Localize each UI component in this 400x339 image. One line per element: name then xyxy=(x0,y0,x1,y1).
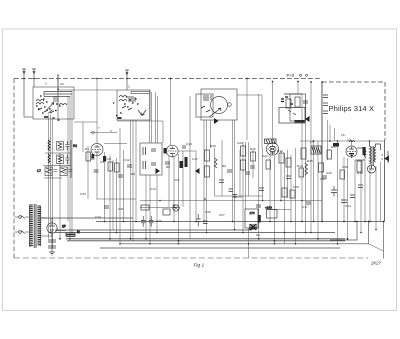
svg-text:+190: +190 xyxy=(265,206,272,210)
box C276 xyxy=(245,209,258,228)
wire x196 drop xyxy=(195,151,197,222)
wire V3 drop i2 xyxy=(274,156,276,244)
resistor R12 dark xyxy=(185,157,188,167)
wire speaker drop xyxy=(380,162,382,222)
wire osc can riser d1 xyxy=(149,90,151,143)
electrolytic wedge W3 xyxy=(214,118,219,124)
V2 electrodes xyxy=(170,147,175,154)
chassis dashed boundary top xyxy=(14,78,321,80)
coil L4 marks in T2 xyxy=(119,96,127,102)
wire x222 drop xyxy=(221,140,223,196)
wire V2 grid riser xyxy=(170,79,172,146)
primary left rail xyxy=(28,205,30,247)
bus wire y243.8 ground bus xyxy=(120,243,369,245)
V3 interior hatch xyxy=(269,147,276,153)
svg-text:R1: R1 xyxy=(85,147,89,151)
capacitor C50 below rectifier xyxy=(48,240,56,242)
antenna terminal 2 xyxy=(32,69,36,87)
resistor R38 dark xyxy=(363,147,366,155)
wire mixer can drop g2 xyxy=(206,120,208,233)
output stage group xyxy=(333,141,389,174)
svg-text:C32: C32 xyxy=(320,177,326,181)
resistor R26 box xyxy=(251,152,256,161)
speaker cone xyxy=(384,156,389,162)
wire y209 segment right xyxy=(266,209,291,211)
wire x311 drop xyxy=(310,82,312,233)
V1 electrodes xyxy=(95,145,100,152)
resistor R17 zigzag xyxy=(215,158,218,168)
wire x258 full drop xyxy=(258,94,260,239)
svg-text:R14: R14 xyxy=(297,164,303,168)
svg-text:R10: R10 xyxy=(210,144,216,148)
V4 electrodes xyxy=(349,147,354,154)
electrolytic wedge W4 xyxy=(305,116,310,122)
wire V4 cathode drop j1 xyxy=(343,157,345,222)
wire gang drop a1 xyxy=(48,115,50,239)
wire x183 drop xyxy=(182,151,184,207)
tone switch cluster dark xyxy=(249,224,257,230)
svg-text:C36: C36 xyxy=(342,165,348,169)
resistor R21 zigzag xyxy=(364,150,366,158)
extra small parts right section xyxy=(91,148,365,198)
wire IF line riser xyxy=(246,79,248,141)
junction dots bus 243 xyxy=(179,243,296,245)
svg-text:C31: C31 xyxy=(118,207,124,211)
wire heater bus start xyxy=(57,228,66,231)
wire V1 cathode drop xyxy=(96,156,98,200)
svg-text:2F: 2F xyxy=(62,225,66,229)
wire x190 drop xyxy=(189,96,191,239)
wire x88 drop xyxy=(87,146,89,199)
wire y144 top rail left part xyxy=(237,95,262,148)
capacitor C45 xyxy=(350,195,355,198)
tube V1 RF amp xyxy=(91,144,103,156)
wire antenna lead-in xyxy=(57,75,59,87)
wire x287 drop xyxy=(287,150,289,198)
coil L2 marks in T1 xyxy=(54,96,58,102)
svg-text:C40: C40 xyxy=(326,171,332,175)
svg-text:C12: C12 xyxy=(124,158,130,162)
svg-text:Fig 1: Fig 1 xyxy=(194,263,205,269)
AVC filter group xyxy=(37,140,77,178)
mains terminal P2 xyxy=(15,231,29,234)
V3 electrodes xyxy=(270,145,275,152)
wire feedback corner vertical x368.5 xyxy=(368,222,370,244)
capacitor C44 xyxy=(341,200,347,203)
coil scatter marks T2 xyxy=(113,97,139,116)
output transformer T6 secondary xyxy=(374,147,376,162)
svg-text:C26: C26 xyxy=(205,210,211,214)
wire mixer can drop g3 xyxy=(210,120,212,148)
capacitor C40 xyxy=(322,176,327,178)
svg-text:R8: R8 xyxy=(166,165,170,169)
tube V5 rectifier xyxy=(47,223,57,233)
wire avc row1 xyxy=(45,140,71,178)
capacitor C43 xyxy=(331,186,337,197)
fuse fill xyxy=(67,234,75,236)
resistor R30 box xyxy=(290,190,295,198)
electrolytic wedge W1 xyxy=(156,168,161,174)
svg-text:C17: C17 xyxy=(192,157,198,161)
wire drop x60 xyxy=(59,153,61,239)
wire x245 drop xyxy=(245,142,247,209)
tiny scattered labels xyxy=(45,82,363,238)
resistor R8 box xyxy=(103,156,106,162)
bus wire y230 xyxy=(55,229,252,231)
chassis dashed boundary left xyxy=(13,79,15,259)
coil L1 marks in T1 xyxy=(36,100,44,105)
capacitor C46 xyxy=(358,185,363,188)
resistor R31 box xyxy=(301,148,306,159)
wire output tx drop k2 xyxy=(375,166,377,230)
svg-text:C8: C8 xyxy=(107,157,111,161)
resistor R15 box xyxy=(205,150,210,161)
resistor R9 box xyxy=(108,162,113,171)
wire osc can drop c1 xyxy=(130,120,132,239)
wire IF1 drop e1 xyxy=(145,175,147,239)
capacitor C9 xyxy=(118,175,123,177)
magic eye circle xyxy=(368,165,376,173)
tube V3 IF amp xyxy=(266,143,278,156)
wire V4 grid riser xyxy=(351,141,353,146)
resistor R37 box xyxy=(266,160,271,169)
wire rect cathode down xyxy=(51,233,53,252)
wire secondary tap lower xyxy=(41,233,52,236)
bottom centre group xyxy=(245,204,277,231)
svg-text:R19: R19 xyxy=(357,171,363,175)
resistor R4 zigzag vertical xyxy=(48,154,50,163)
svg-text:C17: C17 xyxy=(302,205,308,209)
trimmer arrow in T3 xyxy=(209,108,221,117)
capacitor C5 xyxy=(65,155,70,165)
secondary winding xyxy=(37,206,40,245)
wire x302 drop xyxy=(301,94,303,222)
svg-text:R12: R12 xyxy=(250,147,256,151)
speaker frame xyxy=(382,151,389,163)
svg-text:C24: C24 xyxy=(262,154,268,158)
wire x163 link xyxy=(150,121,163,143)
svg-text:C14: C14 xyxy=(150,187,156,191)
resistor R32 zigzag xyxy=(305,163,308,175)
svg-text:C19: C19 xyxy=(186,142,192,146)
tube electrode details xyxy=(50,145,354,234)
wire IF1 drop e3 xyxy=(156,175,158,233)
RF input coil can T1 xyxy=(33,75,74,121)
wire x113 drop xyxy=(112,160,114,230)
wire V2 drop f2 xyxy=(173,157,175,222)
svg-text:C34: C34 xyxy=(95,215,101,219)
node 2 terminal x127 xyxy=(125,70,129,90)
wire coil drop b1 xyxy=(67,96,69,222)
resistor R18 box xyxy=(241,146,246,156)
trimmer circle xyxy=(228,103,232,107)
capacitor C51 below rectifier xyxy=(48,246,56,248)
junction dots on dashed boundary xyxy=(24,79,127,90)
resistor R24 marks xyxy=(288,110,296,115)
wire x281 drop xyxy=(280,151,282,201)
wire gang drop a2 xyxy=(50,115,52,233)
capacitor C17 xyxy=(306,202,311,204)
capacitor C7 xyxy=(69,170,73,172)
switch wiper blob T2 xyxy=(118,117,122,119)
svg-text:C28: C28 xyxy=(293,185,299,189)
wire y122 link xyxy=(74,121,97,123)
capacitor C48 xyxy=(219,180,224,183)
wire secondary to rectifier xyxy=(41,217,47,219)
wire right boundary lower xyxy=(383,222,385,259)
capacitor C24 xyxy=(203,221,208,224)
capacitor C54 xyxy=(256,205,261,207)
wire avc row2 xyxy=(43,165,71,167)
capacitor C47 xyxy=(286,176,291,179)
svg-text:R3: R3 xyxy=(73,144,77,148)
resistor R6 fill xyxy=(61,168,66,173)
wire feedback corner vertical x357 xyxy=(330,222,357,241)
wire x326 drop xyxy=(327,120,329,160)
capacitor C30 xyxy=(229,189,234,192)
wire osc can drop c2 xyxy=(132,120,134,241)
pilot lamp LP1 xyxy=(173,205,179,211)
capacitor C49 xyxy=(259,188,264,191)
wire coil drop b3 xyxy=(71,90,73,233)
svg-text:R17: R17 xyxy=(331,145,337,149)
wire y201 long link xyxy=(140,200,322,202)
grid cap V2 dark xyxy=(164,148,167,154)
wire x248 drop xyxy=(248,142,250,196)
wire x291 drop xyxy=(290,155,292,222)
V4 interior dark mark xyxy=(349,154,354,156)
power filter dark band xyxy=(295,120,305,123)
capacitor C53 xyxy=(323,95,328,114)
wire V3 grid riser xyxy=(272,82,274,144)
wire y199 segment xyxy=(96,198,136,200)
svg-text:2: 2 xyxy=(45,82,47,86)
ground stub power xyxy=(49,252,55,255)
mid columns components xyxy=(86,79,384,244)
wire x83 drop xyxy=(82,122,84,152)
resistor R35 box xyxy=(340,170,345,179)
padder marks in T3 xyxy=(201,106,210,112)
svg-text:R9: R9 xyxy=(222,164,226,168)
transformer core lines xyxy=(34,204,36,248)
capacitor C16 in T4 xyxy=(151,163,156,165)
tube V4 output xyxy=(346,146,357,158)
power transformer T5 xyxy=(15,204,348,255)
resistor R5 fill xyxy=(46,168,51,173)
bus wire y232.5 xyxy=(55,232,335,234)
resistor R3 zigzag xyxy=(58,156,62,162)
heater junction dots xyxy=(60,239,348,241)
wire x155 drop xyxy=(155,92,157,143)
trimmer arrow in T1 xyxy=(46,103,54,114)
svg-text:C33: C33 xyxy=(80,192,86,196)
junction dots top rail xyxy=(314,140,370,142)
IF can 2 dark hatched xyxy=(311,146,321,154)
wire y196 link xyxy=(215,195,263,197)
grid coil V4 xyxy=(349,141,355,143)
wire avc row3 xyxy=(44,177,62,179)
resistor R22 box xyxy=(295,97,300,107)
wire y244 corner link xyxy=(369,244,384,251)
svg-text:C22: C22 xyxy=(237,141,243,145)
svg-text:R15: R15 xyxy=(307,159,313,163)
wire V3 cathode drop i1 xyxy=(269,155,271,222)
svg-text:R6: R6 xyxy=(131,172,135,176)
wire x157 drop xyxy=(157,96,159,143)
wire x178 drop xyxy=(178,154,180,244)
power filter block box B xyxy=(290,94,306,121)
wire x365 drop xyxy=(364,148,366,222)
wire mixer can riser h2 xyxy=(234,120,236,230)
resistor R10 box xyxy=(115,163,120,172)
wire V2 cathode drop f1 xyxy=(168,156,170,207)
trimmer arrow in T2 xyxy=(138,110,146,116)
wire coil drop b2 xyxy=(69,96,71,239)
resistor R36 box xyxy=(299,168,304,177)
capacitor C25 xyxy=(173,205,177,208)
dashed right of Philips label box xyxy=(384,82,386,140)
wire output tx drop k1 xyxy=(369,166,371,222)
wire x337 drop xyxy=(337,141,339,244)
capacitor C10 xyxy=(165,162,170,164)
wire x295 drop xyxy=(295,148,297,244)
choke L8 xyxy=(333,143,339,147)
resistor R28 box xyxy=(286,158,291,167)
chassis dashed boundary bottom xyxy=(14,257,368,259)
wire terminal to coil box xyxy=(24,116,33,118)
svg-text:M: M xyxy=(77,230,80,234)
wire IF1 drop e2 xyxy=(149,175,151,244)
wire mixer can riser h1 xyxy=(232,120,234,222)
junction dots bus 221 xyxy=(105,221,371,223)
wire x253 drop xyxy=(252,150,254,178)
wire mains to primary xyxy=(28,217,29,232)
dashed top of Philips label box xyxy=(322,81,385,83)
resistor R29 box xyxy=(282,188,287,197)
svg-text:3: 3 xyxy=(110,129,112,133)
resistor R19 box xyxy=(241,160,246,170)
bus wire y240.8 heater bus B xyxy=(67,240,345,242)
capacitor C14 xyxy=(127,165,132,167)
coil L6 marks in T3 xyxy=(204,95,211,101)
wire V2 plate link xyxy=(178,150,196,152)
box right of C276 xyxy=(267,210,278,219)
wire y143.5 stub xyxy=(104,143,127,145)
wire x262 drop xyxy=(262,148,264,201)
wire y121 link xyxy=(117,120,150,122)
wire x240 drop xyxy=(239,150,241,196)
wire gang drop a3 xyxy=(52,117,54,248)
mixer coil can T3 xyxy=(196,89,237,120)
fuse M1 xyxy=(66,233,75,236)
svg-text:ZA: ZA xyxy=(256,233,261,237)
resistor R7 box xyxy=(86,152,91,161)
wire x110 drop xyxy=(109,155,111,239)
wire AVC line to V1 grid xyxy=(96,79,98,144)
resistor R14 box xyxy=(141,205,149,210)
output transformer core xyxy=(372,146,373,165)
wire V4 drop j2 xyxy=(347,158,349,239)
coil L5 marks in T2 xyxy=(129,96,135,102)
filter dark marks xyxy=(281,97,293,104)
capacitor C52 xyxy=(303,101,308,103)
capacitor C23 xyxy=(196,214,201,227)
wire supply riser x298 xyxy=(297,82,299,95)
capacitor C22 xyxy=(149,216,154,227)
junction dots T1 xyxy=(44,116,48,118)
grid cap V1 dark xyxy=(92,154,95,158)
wire left edge of label box / HT rail xyxy=(321,82,323,222)
bus junction dots xyxy=(51,141,377,244)
resistor R13 box xyxy=(163,209,170,215)
wire x330 drop xyxy=(329,125,331,141)
wire x355 drop xyxy=(354,160,356,222)
capacitor C4 xyxy=(65,141,70,151)
resistor R16 box xyxy=(205,166,210,177)
mains terminal P1 xyxy=(15,216,29,219)
wire y160 link right xyxy=(355,159,365,161)
wire x104 drop xyxy=(104,152,106,222)
switch S1 contacts in T1 xyxy=(38,108,54,113)
capacitor C18 xyxy=(227,170,232,172)
antenna terminal 1 xyxy=(22,69,26,117)
wire x120 drop xyxy=(119,128,121,244)
wire y90 link T1-T2 xyxy=(57,89,117,91)
svg-text:L8: L8 xyxy=(341,133,345,137)
wire x305 drop xyxy=(305,100,307,233)
electrolytic wedge W2 xyxy=(195,168,200,174)
V5 electrodes xyxy=(50,230,54,233)
svg-text:170: 170 xyxy=(250,211,255,215)
wire x284 drop xyxy=(284,153,286,244)
svg-text:R13: R13 xyxy=(277,149,283,153)
svg-text:C7: C7 xyxy=(37,169,41,173)
coil scatter marks T1 xyxy=(36,96,61,120)
wire supply link y94 xyxy=(284,93,302,95)
secondary right rail xyxy=(40,206,42,246)
resistor R11 dark xyxy=(180,161,184,168)
bus wire y238.8 heater bus A xyxy=(66,238,345,240)
capacitor C15 in T4 xyxy=(151,149,156,151)
wire x334 drop xyxy=(334,128,336,141)
wire rectifier output xyxy=(51,218,53,223)
wire x361 drop xyxy=(360,160,362,233)
wire x116 drop xyxy=(116,158,118,233)
capacitor C31 xyxy=(233,195,238,198)
resistor R3 box xyxy=(57,155,64,164)
svg-text:C27: C27 xyxy=(219,213,225,217)
svg-text:L9: L9 xyxy=(348,138,352,142)
pilot lamp cross xyxy=(174,206,178,210)
svg-text:7: 7 xyxy=(98,126,100,130)
resistor R23 box xyxy=(286,99,291,108)
wire right boundary vertical xyxy=(384,140,386,222)
supply filter group top right xyxy=(281,82,328,116)
wire y148 link V4 xyxy=(357,147,365,149)
magic eye marks xyxy=(369,166,374,170)
resistor R2 zigzag vertical xyxy=(48,140,50,151)
wire x318 drop xyxy=(317,141,319,239)
tuning gang section circle xyxy=(211,97,228,114)
coil L3 marks in T1 xyxy=(59,104,67,106)
power filter block box A xyxy=(279,108,305,124)
capacitor C20 xyxy=(141,216,146,227)
wire x243 drop xyxy=(242,142,244,233)
bus wire y218 from rectifier xyxy=(41,217,133,219)
capacitor C13 xyxy=(245,172,250,174)
output transformer T6 primary xyxy=(370,146,372,164)
capacitor C8 xyxy=(94,170,99,172)
